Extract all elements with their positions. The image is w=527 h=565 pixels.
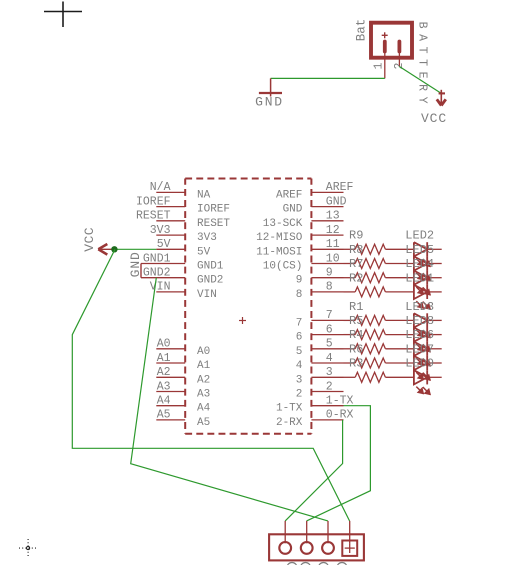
LED LED3 triangle (414, 313, 427, 327)
pin A5 (left) (156, 419, 185, 421)
wire net 1-TX to connector pin2 (307, 406, 371, 521)
svg-text:10: 10 (326, 252, 340, 265)
svg-text:GND1: GND1 (143, 252, 171, 265)
LED LED1 emission arrows (416, 301, 430, 309)
resistor R2 (355, 287, 385, 297)
pin name 3 (inside right) (296, 374, 303, 386)
svg-text:R9: R9 (349, 229, 363, 243)
ground symbol GND (259, 78, 282, 96)
pin name RESET (inside left) (197, 218, 230, 230)
wire pin to resistor R4 (344, 348, 356, 350)
connector pin 3 stub (327, 521, 329, 543)
pin name 11-MOSI (inside right) (256, 246, 302, 258)
pin 3 (right) (311, 376, 343, 378)
LED LED8 triangle (414, 327, 427, 341)
pin N/A (left) (156, 191, 185, 193)
LED label LED3 (405, 300, 434, 314)
pin name 9 (inside right) (296, 275, 303, 287)
LED LED8 cathode lead (427, 334, 442, 336)
svg-text:3: 3 (296, 374, 303, 386)
resistor R1 (355, 315, 385, 325)
pin GND2 (left) (141, 277, 185, 279)
pin name IOREF (inside left) (197, 204, 230, 216)
svg-text:LED9: LED9 (405, 357, 434, 371)
LED LED2 emission arrows (416, 259, 430, 267)
pin label 13 (326, 210, 340, 223)
pin name VIN (inside left) (197, 289, 217, 301)
svg-text:A2: A2 (157, 366, 171, 379)
wire pin to resistor R9 (344, 248, 356, 250)
connector pin 1 stub (284, 521, 286, 543)
svg-text:9: 9 (296, 275, 303, 287)
LED LED5 cathode lead (427, 263, 442, 265)
svg-text:13-SCK: 13-SCK (263, 218, 303, 230)
pin GND1 (left) (141, 263, 185, 265)
svg-text:11: 11 (326, 238, 340, 251)
pin name A3 (inside left) (197, 389, 210, 401)
resistor label R8 (349, 243, 363, 257)
svg-text:2: 2 (393, 62, 406, 69)
pin label A4 (157, 395, 171, 408)
wire VCC to 5V pin (115, 248, 156, 250)
svg-text:2: 2 (296, 389, 303, 401)
pin label VIN (150, 281, 171, 294)
svg-text:GND: GND (255, 95, 284, 110)
LED LED6 emission arrows (416, 358, 430, 366)
pin label 7 (326, 309, 333, 322)
resistor R4 (355, 344, 385, 354)
svg-text:LED4: LED4 (405, 257, 434, 271)
pin name 8 (inside right) (296, 289, 303, 301)
resistor label R2 (349, 271, 363, 285)
svg-text:A1: A1 (197, 360, 211, 372)
connector pad 3 circle (322, 542, 334, 554)
svg-text:6: 6 (296, 332, 303, 344)
pin label 5 (326, 338, 333, 351)
resistor label R4 (349, 328, 363, 342)
svg-text:R8: R8 (349, 243, 363, 257)
pin name 3V3 (inside left) (197, 232, 217, 244)
pin label 3V3 (150, 224, 171, 237)
battery label Bat (355, 19, 369, 42)
pin label 10 (326, 252, 340, 265)
LED LED1 cathode lead (427, 291, 442, 293)
svg-text:5V: 5V (197, 246, 211, 258)
wire net VCC: 5V to connector pin4 (72, 249, 349, 521)
connector pad 1 circle (279, 542, 291, 554)
svg-text:13: 13 (326, 210, 340, 223)
LED LED6 cathode bar (426, 342, 428, 356)
svg-text:0-RX: 0-RX (326, 409, 354, 422)
wire resistor to LED LED7 anode (385, 362, 414, 364)
LED label LED7 (405, 342, 434, 356)
pin name GND (inside right) (283, 204, 303, 216)
svg-text:LED7: LED7 (405, 342, 434, 356)
svg-text:A4: A4 (197, 403, 211, 415)
pin label A0 (157, 338, 171, 351)
wire pin to resistor R1 (344, 319, 356, 321)
LED LED9 cathode lead (427, 376, 442, 378)
svg-text:NA: NA (197, 189, 211, 201)
ground label GND (255, 95, 284, 110)
LED label LED4 (405, 257, 434, 271)
svg-text:LED5: LED5 (405, 243, 434, 257)
pin label 8 (326, 281, 333, 294)
pin label AREF (326, 181, 354, 194)
LED LED4 cathode lead (427, 277, 442, 279)
resistor R8 (355, 259, 385, 269)
svg-text:A4: A4 (157, 395, 171, 408)
pin label A1 (157, 352, 171, 365)
pin name A1 (inside left) (197, 360, 211, 372)
LED label LED8 (405, 314, 434, 328)
svg-text:2-RX: 2-RX (276, 417, 303, 429)
pin 3V3 (left) (156, 234, 185, 236)
pin name 1-TX (inside right) (276, 403, 303, 415)
vcc symbol left (left arrow) (98, 244, 115, 255)
pin AREF (right) (311, 191, 343, 193)
LED LED5 triangle (414, 256, 427, 270)
svg-text:4: 4 (326, 352, 333, 365)
LED label LED2 (405, 229, 434, 243)
svg-text:LED8: LED8 (405, 314, 434, 328)
origin cross inside U1 (239, 317, 246, 324)
LED label LED1 (405, 271, 434, 285)
pin name A2 (inside left) (197, 374, 210, 386)
LED LED1 cathode bar (426, 285, 428, 299)
LED LED3 emission arrows (416, 330, 430, 338)
pin name 2 (inside right) (296, 389, 303, 401)
pin name 10(CS) (inside right) (263, 261, 303, 273)
LED LED9 triangle (414, 370, 427, 384)
battery pin 2 contact (397, 42, 401, 52)
resistor label R9 (349, 229, 363, 243)
svg-text:12: 12 (326, 224, 340, 237)
svg-text:A1: A1 (157, 352, 171, 365)
svg-text:R6: R6 (349, 342, 363, 356)
pin name AREF (inside right) (276, 189, 302, 201)
pin A4 (left) (156, 405, 185, 407)
pin label A2 (157, 366, 171, 379)
svg-text:IOREF: IOREF (136, 195, 171, 208)
svg-text:8: 8 (296, 289, 303, 301)
pin name A4 (inside left) (197, 403, 211, 415)
LED LED2 cathode bar (426, 242, 428, 256)
resistor label R1 (349, 300, 363, 314)
svg-text:7: 7 (296, 317, 303, 329)
svg-text:N/A: N/A (150, 181, 171, 194)
pin 10 (right) (311, 263, 343, 265)
pin label 3 (326, 366, 333, 379)
LED LED9 emission arrows (416, 387, 430, 395)
svg-text:R4: R4 (349, 328, 363, 342)
battery pin 2 lead (398, 52, 400, 67)
LED LED5 cathode bar (426, 256, 428, 270)
svg-text:AREF: AREF (276, 189, 302, 201)
resistor R9 (355, 244, 385, 254)
pin 0-RX (right) (311, 419, 343, 421)
svg-text:3V3: 3V3 (150, 224, 171, 237)
resistor R6 (355, 358, 385, 368)
wire battery pin2 to VCC (399, 67, 441, 94)
resistor R5 (355, 330, 385, 340)
net bridge GND1-GND2 (140, 264, 142, 278)
wire pin to resistor R5 (344, 334, 356, 336)
LED label LED5 (405, 243, 434, 257)
svg-text:RESET: RESET (136, 210, 171, 223)
pin 5V (left) (156, 248, 185, 250)
battery G1 outline (371, 23, 412, 58)
pin label 12 (326, 224, 340, 237)
svg-text:RESET: RESET (197, 218, 230, 230)
pin name 4 (inside right) (296, 360, 303, 372)
vcc label top (421, 111, 447, 126)
wire resistor to LED LED8 anode (385, 334, 414, 336)
wire resistor to LED LED4 anode (385, 277, 414, 279)
svg-text:A0: A0 (197, 346, 210, 358)
LED LED7 emission arrows (416, 372, 430, 380)
pin name GND1 (inside left) (197, 261, 224, 273)
pin name 2-RX (inside right) (276, 417, 303, 429)
LED LED8 emission arrows (416, 344, 430, 352)
connector pad 4 square (342, 541, 357, 556)
pin label 0-RX (326, 409, 354, 422)
wire net 0-RX to connector pin1 (285, 420, 342, 521)
wire pin to resistor R8 (344, 263, 356, 265)
svg-text:GND: GND (326, 195, 347, 208)
svg-text:4: 4 (296, 360, 303, 372)
battery plus mark (382, 32, 388, 38)
pin name 7 (inside right) (296, 317, 303, 329)
pin 5 (right) (311, 348, 343, 350)
LED LED3 cathode bar (426, 313, 428, 327)
pin label N/A (150, 181, 171, 194)
LED label LED6 (405, 328, 434, 342)
wire resistor to LED LED3 anode (385, 319, 414, 321)
pin label 2 (326, 380, 333, 393)
LED LED2 cathode lead (427, 248, 442, 250)
pin A2 (left) (156, 376, 185, 378)
pin label A3 (157, 380, 171, 393)
op-amp style dashed body U1 (Arduino) (185, 179, 311, 434)
svg-text:VCC: VCC (421, 111, 447, 126)
wire resistor to LED LED5 anode (385, 263, 414, 265)
svg-text:GND2: GND2 (143, 267, 171, 280)
svg-text:2: 2 (326, 380, 333, 393)
LED LED6 triangle (414, 342, 427, 356)
pin name 13-SCK (inside right) (263, 218, 303, 230)
pin A3 (left) (156, 391, 185, 393)
svg-text:1: 1 (372, 62, 385, 69)
pin 6 (right) (311, 334, 343, 336)
pin label GND1 (143, 252, 171, 265)
pin name A0 (inside left) (197, 346, 210, 358)
net label GND (left) (128, 251, 143, 277)
svg-text:3V3: 3V3 (197, 232, 217, 244)
svg-text:A3: A3 (197, 389, 210, 401)
svg-text:R1: R1 (349, 300, 363, 314)
pin IOREF (left) (156, 206, 185, 208)
pin 11 (right) (311, 248, 343, 250)
pin name A5 (inside left) (197, 417, 210, 429)
svg-text:7: 7 (326, 309, 333, 322)
svg-text:12-MISO: 12-MISO (256, 232, 303, 244)
svg-text:R5: R5 (349, 314, 363, 328)
LED LED7 cathode bar (426, 356, 428, 370)
svg-text:A3: A3 (157, 380, 171, 393)
LED LED3 cathode lead (427, 319, 442, 321)
svg-text:R2: R2 (349, 271, 363, 285)
pin 1-TX (right) (311, 405, 343, 407)
wire pin to resistor R2 (344, 291, 356, 293)
connector pin 4 stub (349, 521, 351, 543)
connector pin 2 stub (306, 521, 308, 543)
pin name 5 (inside right) (296, 346, 303, 358)
pin label GND (326, 195, 347, 208)
LED LED5 emission arrows (416, 273, 430, 281)
pin label GND2 (143, 267, 171, 280)
svg-text:GND2: GND2 (197, 275, 223, 287)
svg-text:A0: A0 (157, 338, 171, 351)
svg-text:IOREF: IOREF (197, 204, 230, 216)
LED LED6 cathode lead (427, 348, 442, 350)
wire resistor to LED LED1 anode (385, 291, 414, 293)
battery label BATTERY (415, 22, 428, 110)
svg-text:5V: 5V (157, 238, 171, 251)
pin label A5 (157, 409, 171, 422)
svg-text:9: 9 (326, 267, 333, 280)
LED LED1 triangle (414, 285, 427, 299)
LED LED2 triangle (414, 242, 427, 256)
pin name 6 (inside right) (296, 332, 303, 344)
svg-text:LED6: LED6 (405, 328, 434, 342)
svg-text:VIN: VIN (197, 289, 217, 301)
connector pad 2 circle (301, 542, 313, 554)
LED LED8 cathode bar (426, 327, 428, 341)
pin label RESET (136, 210, 171, 223)
battery pin 1 contact (383, 42, 387, 52)
battery pin 1 lead (384, 52, 386, 78)
svg-text:3: 3 (326, 366, 333, 379)
pin A1 (left) (156, 362, 185, 364)
svg-text:GND: GND (128, 251, 143, 277)
resistor label R3 (349, 357, 363, 371)
LED label LED9 (405, 357, 434, 371)
pin RESET (left) (156, 220, 185, 222)
dotted origin cross (19, 539, 38, 558)
svg-text:A5: A5 (157, 409, 171, 422)
svg-text:AREF: AREF (326, 181, 354, 194)
svg-text:1-TX: 1-TX (276, 403, 303, 415)
pin name GND2 (inside left) (197, 275, 223, 287)
LED LED4 cathode bar (426, 271, 428, 285)
pin 4 (right) (311, 362, 343, 364)
svg-text:VCC: VCC (82, 227, 97, 252)
wire pin to resistor R7 (344, 277, 356, 279)
resistor R7 (355, 273, 385, 283)
svg-text:6: 6 (326, 323, 333, 336)
pin label 1-TX (326, 395, 354, 408)
pin label 11 (326, 238, 340, 251)
wire pin to resistor R3 (344, 376, 356, 378)
svg-text:10(CS): 10(CS) (263, 261, 303, 273)
sheet frame cross marker (44, 2, 82, 28)
svg-text:BATTERY: BATTERY (415, 22, 428, 110)
battery pin number 2 (393, 62, 406, 69)
pin 7 (right) (311, 319, 343, 321)
pin 2 (right) (311, 391, 343, 393)
pin 12 (right) (311, 234, 343, 236)
LED LED4 emission arrows (416, 287, 430, 295)
svg-text:LED1: LED1 (405, 271, 434, 285)
pin name 12-MISO (inside right) (256, 232, 303, 244)
svg-text:11-MOSI: 11-MOSI (256, 246, 302, 258)
cut-off pads below connector (287, 563, 347, 565)
svg-text:5: 5 (296, 346, 303, 358)
pin 8 (right) (311, 291, 343, 293)
svg-text:GND: GND (283, 204, 303, 216)
pin name NA (inside left) (197, 189, 211, 201)
LED LED7 triangle (414, 356, 427, 370)
resistor label R7 (349, 257, 363, 271)
pin label 4 (326, 352, 333, 365)
LED LED9 cathode bar (426, 370, 428, 384)
pin 9 (right) (311, 277, 343, 279)
svg-text:A5: A5 (197, 417, 210, 429)
vcc symbol top (down arrow) (437, 90, 446, 106)
LED LED7 cathode lead (427, 362, 442, 364)
wire pin to resistor R6 (344, 362, 356, 364)
svg-text:LED2: LED2 (405, 229, 434, 243)
pin label 9 (326, 267, 333, 280)
wire resistor to LED LED6 anode (385, 348, 414, 350)
pin label 6 (326, 323, 333, 336)
pin GND (right) (311, 206, 343, 208)
svg-text:R3: R3 (349, 357, 363, 371)
svg-text:VIN: VIN (150, 281, 171, 294)
junction dot at 5V (111, 246, 117, 252)
svg-text:5: 5 (326, 338, 333, 351)
svg-text:LED3: LED3 (405, 300, 434, 314)
pin A0 (left) (156, 348, 185, 350)
resistor R3 (355, 372, 385, 382)
svg-text:8: 8 (326, 281, 333, 294)
connector X1 outline (269, 534, 364, 560)
resistor label R6 (349, 342, 363, 356)
wire resistor to LED LED2 anode (385, 248, 414, 250)
pin name 5V (inside left) (197, 246, 211, 258)
wire battery pin1 to GND (271, 77, 385, 79)
pin VIN (left) (156, 291, 185, 293)
LED LED4 triangle (414, 271, 427, 285)
battery pin number 1 (372, 62, 385, 69)
wire resistor to LED LED9 anode (385, 376, 414, 378)
resistor label R5 (349, 314, 363, 328)
svg-text:Bat: Bat (355, 19, 369, 42)
vcc label left (82, 227, 97, 252)
pin label 5V (157, 238, 171, 251)
svg-text:A2: A2 (197, 374, 210, 386)
svg-text:GND1: GND1 (197, 261, 224, 273)
svg-text:R7: R7 (349, 257, 363, 271)
wire net GND2 to connector pin3 (131, 278, 328, 521)
pin label IOREF (136, 195, 171, 208)
pin 13 (right) (311, 220, 343, 222)
